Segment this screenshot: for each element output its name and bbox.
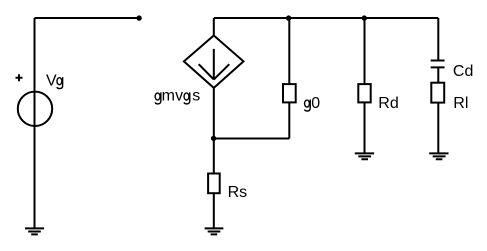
svg-text:s: s	[192, 88, 200, 105]
svg-text:Rl: Rl	[453, 95, 468, 112]
svg-text:m: m	[162, 88, 175, 105]
svg-text:v: v	[175, 88, 183, 105]
svg-text:V: V	[46, 72, 57, 89]
svg-text:Rd: Rd	[378, 95, 398, 112]
svg-text:Cd: Cd	[453, 63, 473, 80]
svg-text:0: 0	[311, 95, 320, 112]
svg-text:Rs: Rs	[228, 184, 248, 201]
